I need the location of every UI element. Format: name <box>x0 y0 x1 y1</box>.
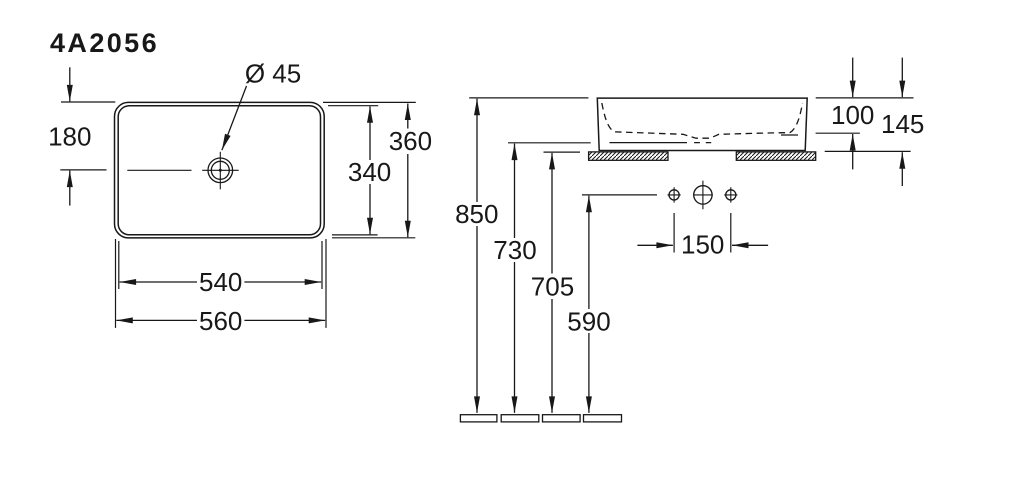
dimension 850 lower line <box>476 226 478 413</box>
svg-text:150: 150 <box>681 230 724 260</box>
dimension 560 right line <box>244 319 325 321</box>
svg-text:180: 180 <box>48 122 91 152</box>
faucet hole center crosshair <box>693 181 713 210</box>
svg-text:540: 540 <box>199 267 242 297</box>
bowl hidden contour dashed <box>602 103 803 138</box>
faucet hole right crosshair <box>724 187 737 202</box>
dimension 540 right line <box>244 281 321 283</box>
plan centerline outside tick <box>60 169 106 171</box>
extension line rim level right <box>816 97 914 99</box>
extension line inner top right <box>328 105 378 107</box>
svg-text:340: 340 <box>348 157 391 187</box>
faucet hole center circle <box>694 186 712 204</box>
svg-text:850: 850 <box>455 199 498 229</box>
dimension 850 upper line <box>476 99 478 202</box>
dimension 360 upper line <box>407 104 409 129</box>
bowl ledge line left <box>610 142 688 144</box>
faucet hole left crosshair <box>668 187 681 202</box>
extension line inner bottom right <box>332 234 378 236</box>
faucet hole left circle <box>669 190 679 200</box>
dimension 340 upper line <box>369 106 371 160</box>
floor tile 2 <box>501 415 539 422</box>
dimension 340 lower line <box>369 184 371 234</box>
bowl ledge line right <box>781 134 798 136</box>
dimension 150 left arrow <box>637 244 673 246</box>
dimension 145 bottom arrow <box>901 152 903 186</box>
plan centerline inside segment <box>127 169 191 171</box>
svg-text:145: 145 <box>881 109 924 139</box>
basin plan view inner rim <box>118 106 320 235</box>
dimension 150 right arrow <box>732 244 768 246</box>
svg-text:705: 705 <box>531 271 574 301</box>
dimension 145 top arrow <box>901 58 903 98</box>
svg-text:4A2056: 4A2056 <box>50 28 159 58</box>
dimension 590 lower line <box>588 333 590 413</box>
drain hole outer circle <box>208 158 233 183</box>
dimension 730 lower line <box>514 262 516 413</box>
extension line plan bottom left outer <box>115 239 117 328</box>
basin plan view outer rim <box>115 102 325 238</box>
drain hole center dot <box>219 169 222 172</box>
svg-text:590: 590 <box>567 306 610 336</box>
faucet hole extension left vertical <box>673 213 675 253</box>
extension line bowl depth level right <box>816 132 860 134</box>
dimension 180 lower line <box>69 171 71 206</box>
dimension 360 lower line <box>407 154 409 237</box>
bowl center mark dashes <box>694 142 711 144</box>
extension line counter top left <box>544 151 581 153</box>
extension line rim level left <box>469 97 588 99</box>
basin side view outline <box>597 98 807 150</box>
leader line for drain diameter <box>222 86 247 150</box>
extension line counter top right <box>825 150 911 152</box>
floor tile 3 <box>543 415 581 422</box>
dimension 730 upper line <box>514 144 516 238</box>
countertop section left hatched <box>589 152 668 160</box>
floor tile 4 <box>584 415 622 422</box>
dimension 100 bottom arrow <box>852 134 854 169</box>
floor tile 1 <box>460 415 497 422</box>
extension line 730 level <box>508 142 591 144</box>
plan top edge tick left <box>61 101 115 103</box>
drain crosshair vertical <box>219 152 221 190</box>
dimension 705 lower line <box>551 299 553 413</box>
drain hole inner circle <box>211 161 229 179</box>
drain crosshair horizontal <box>202 169 239 171</box>
svg-text:100: 100 <box>831 100 874 130</box>
faucet hole extension right vertical <box>730 213 732 253</box>
dimension 540 left line <box>120 281 197 283</box>
svg-text:730: 730 <box>493 235 536 265</box>
extension line outer top right <box>323 101 416 103</box>
extension line plan bottom left inner <box>118 241 120 289</box>
dimension 705 upper line <box>551 153 553 274</box>
countertop section right hatched <box>736 152 815 160</box>
extension line plan bottom right inner <box>321 241 323 289</box>
svg-text:360: 360 <box>389 126 432 156</box>
svg-text:560: 560 <box>199 306 242 336</box>
svg-text:Ø 45: Ø 45 <box>245 59 301 89</box>
extension line plan bottom right outer <box>325 239 327 328</box>
extension line faucet axis left <box>582 194 657 196</box>
dimension 590 upper line <box>588 196 590 309</box>
dimension 100 top arrow <box>852 58 854 98</box>
extension line outer bottom right <box>332 237 415 239</box>
dimension 560 left line <box>116 319 197 321</box>
dimension 180 upper line <box>69 67 71 101</box>
faucet hole right circle <box>726 190 736 200</box>
